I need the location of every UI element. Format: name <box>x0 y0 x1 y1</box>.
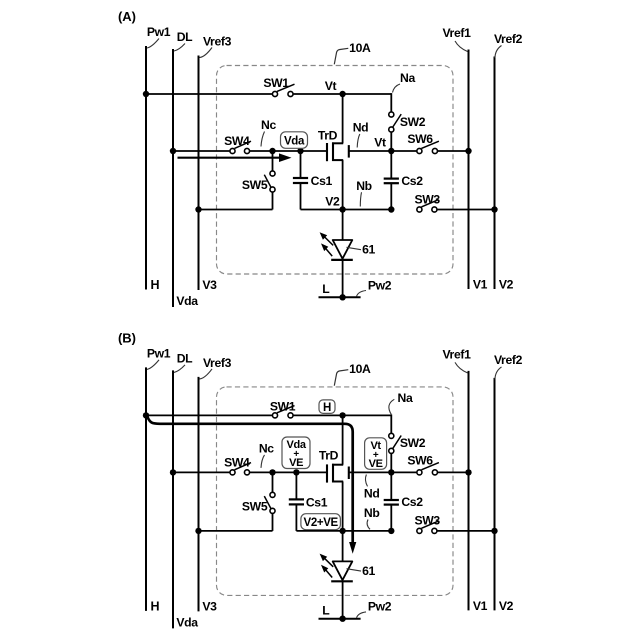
switch SW1 (B) <box>270 400 296 418</box>
junction Pw1-top wire (A) <box>143 91 149 97</box>
svg-text:SW3: SW3 <box>415 514 441 528</box>
node label Nc (B) <box>259 441 274 468</box>
node label V2+VE (boxed) <box>301 514 341 530</box>
svg-text:(A): (A) <box>118 9 136 24</box>
power line Pw1 (A) <box>146 25 171 292</box>
svg-text:10A: 10A <box>349 41 371 55</box>
junction node Vda/gate (B) <box>293 469 299 475</box>
svg-text:SW6: SW6 <box>407 453 433 467</box>
junction SW5 branch (B) <box>269 469 275 475</box>
svg-text:V1: V1 <box>473 599 488 613</box>
power node Pw2 (A) <box>319 278 392 300</box>
wire bottom row Cs1 to Nb (A) <box>301 209 392 211</box>
svg-text:SW5: SW5 <box>242 178 268 192</box>
switch SW6 (A) <box>407 132 439 154</box>
svg-text:Cs1: Cs1 <box>311 174 333 188</box>
node label Vt (right) <box>374 136 386 150</box>
LED 61 (A) <box>331 210 353 298</box>
svg-text:Cs1: Cs1 <box>306 495 328 509</box>
wire SW2 to node Nd (B) <box>390 453 392 472</box>
svg-text:61: 61 <box>362 243 375 257</box>
transistor TrD (A) <box>318 94 349 210</box>
junction node Nd (B) <box>388 469 394 475</box>
node label H (boxed) <box>319 400 335 414</box>
svg-text:Nc: Nc <box>259 441 274 455</box>
wire SW5 to Vref3 (A) <box>199 209 273 211</box>
wire node Nc row (B) <box>173 471 326 473</box>
svg-text:V3: V3 <box>202 599 217 613</box>
capacitor Cs2 (A) <box>384 151 424 210</box>
switch SW2 (B) <box>389 433 426 453</box>
svg-text:VE: VE <box>289 457 303 469</box>
node label Nd (B) <box>364 475 380 501</box>
wire SW2 to node Nd (A) <box>390 132 392 151</box>
switch SW1 (A) <box>263 76 294 97</box>
svg-text:Pw2: Pw2 <box>368 278 392 292</box>
svg-text:Nd: Nd <box>353 121 369 135</box>
node label Vt+VE (boxed) <box>365 438 387 470</box>
signal arrow (data write) <box>178 153 292 162</box>
transistor TrD (B) <box>319 415 349 531</box>
svg-text:V2+VE: V2+VE <box>304 517 339 529</box>
junction SW5 branch (A) <box>269 148 275 154</box>
node label Nd (A) <box>353 121 369 148</box>
junction SW3-Vref2 (B) <box>491 528 497 534</box>
current flow arrow (thick) <box>148 417 357 554</box>
switch SW3 (B) <box>415 514 441 534</box>
svg-text:Cs2: Cs2 <box>401 174 423 188</box>
wire SW3 to Vref2 (B) <box>437 530 495 532</box>
junction node Vda/gate (A) <box>297 148 303 154</box>
junction SW6-Vref1 (A) <box>465 148 471 154</box>
svg-text:SW5: SW5 <box>242 499 268 513</box>
node label Nc (A) <box>261 118 277 147</box>
reference line Vref2 (A) <box>494 32 523 292</box>
label 61 (B) <box>347 564 376 578</box>
svg-text:V2: V2 <box>499 278 514 292</box>
data line DL (B) <box>173 351 198 629</box>
wire node Nd row (A) <box>349 150 469 152</box>
data line DL (A) <box>173 30 198 308</box>
node label Nb (A) <box>356 179 372 207</box>
svg-text:H: H <box>323 402 331 414</box>
node label V2 (A) <box>325 194 340 208</box>
power node Pw2 (B) <box>319 600 392 622</box>
svg-text:SW2: SW2 <box>400 115 426 129</box>
svg-text:TrD: TrD <box>318 129 338 143</box>
pixel boundary 10A (A) <box>217 66 454 275</box>
wire bottom row Cs1 to Nb (B) <box>296 530 391 532</box>
svg-text:H: H <box>150 278 159 292</box>
junction Vref3-bottom wire (B) <box>195 528 201 534</box>
svg-text:SW1: SW1 <box>270 400 296 414</box>
wire SW5 to Vref3 (B) <box>199 530 273 532</box>
junction node Nb (A) <box>388 206 394 212</box>
svg-text:Pw1: Pw1 <box>147 25 171 39</box>
svg-text:SW4: SW4 <box>224 134 250 148</box>
wire node Nd row (B) <box>349 471 469 473</box>
node label Vt (top) <box>325 79 337 93</box>
svg-text:SW4: SW4 <box>224 456 250 470</box>
LED 61 (B) <box>331 531 353 619</box>
svg-text:Vt: Vt <box>325 79 337 93</box>
junction Vref3-bottom wire (A) <box>195 206 201 212</box>
switch SW6 (B) <box>407 453 439 475</box>
svg-text:H: H <box>150 599 159 613</box>
junction SW3-Vref2 (A) <box>491 206 497 212</box>
junction drain / top wire (B) <box>339 412 345 418</box>
svg-text:L: L <box>322 603 330 617</box>
svg-text:Nd: Nd <box>364 487 380 501</box>
reference line Vref2 (B) <box>494 353 523 613</box>
capacitor Cs1 (B) <box>289 472 328 531</box>
junction DL-Nc wire (A) <box>170 148 176 154</box>
wire node Nc row (A) <box>173 150 326 152</box>
svg-text:V3: V3 <box>202 278 217 292</box>
node label Vda+VE (boxed) <box>282 437 310 469</box>
capacitor Cs2 (B) <box>384 472 424 531</box>
junction DL-Nc wire (B) <box>170 469 176 475</box>
power line Pw1 (B) <box>146 346 171 613</box>
node label Nb (B) <box>364 506 380 529</box>
svg-text:L: L <box>322 282 330 296</box>
svg-text:Nb: Nb <box>364 506 380 520</box>
switch SW5 (B) <box>242 472 275 531</box>
svg-text:Vda: Vda <box>176 615 198 629</box>
svg-text:SW1: SW1 <box>263 76 289 90</box>
reference line Vref1 (A) <box>442 26 487 292</box>
label 61 (A) <box>347 243 376 257</box>
svg-text:SW3: SW3 <box>415 192 441 206</box>
switch SW4 (B) <box>224 456 251 475</box>
svg-text:10A: 10A <box>349 362 371 376</box>
switch SW3 (A) <box>415 192 441 212</box>
node Na corner wire (A) <box>391 71 415 115</box>
svg-text:DL: DL <box>177 30 193 44</box>
svg-text:SW2: SW2 <box>400 436 426 450</box>
svg-text:V2: V2 <box>325 194 340 208</box>
junction node V2 / LED anode (A) <box>339 206 345 212</box>
svg-text:Vt: Vt <box>374 136 386 150</box>
svg-text:Pw1: Pw1 <box>147 346 171 360</box>
svg-text:Na: Na <box>398 391 413 405</box>
svg-text:Cs2: Cs2 <box>401 495 423 509</box>
svg-text:Vref3: Vref3 <box>203 356 232 370</box>
wire top row Pw1 to Na corner (B) <box>146 414 391 416</box>
capacitor Cs1 (A) <box>293 151 333 210</box>
junction Pw1-top wire (B) <box>143 412 149 418</box>
svg-text:Vref2: Vref2 <box>494 353 523 367</box>
wire SW3 to Vref2 (A) <box>437 209 495 211</box>
node label Vda (boxed) <box>281 132 308 149</box>
LED light arrows (B) <box>320 554 334 578</box>
switch SW4 (A) <box>224 134 251 153</box>
label 10A (B) <box>334 362 371 386</box>
svg-text:Nc: Nc <box>261 118 276 132</box>
svg-text:TrD: TrD <box>319 449 339 463</box>
svg-text:Nb: Nb <box>356 179 372 193</box>
svg-text:V2: V2 <box>499 599 514 613</box>
junction SW6-Vref1 (B) <box>465 469 471 475</box>
label 10A (A) <box>334 41 371 65</box>
svg-text:Vref1: Vref1 <box>442 347 471 361</box>
svg-text:Vref1: Vref1 <box>442 26 471 40</box>
reference line Vref3 (A) <box>199 35 232 293</box>
reference line Vref1 (B) <box>442 347 487 613</box>
wire top row Pw1 to Na corner (A) <box>146 93 391 95</box>
svg-text:Vref2: Vref2 <box>494 32 523 46</box>
svg-text:Pw2: Pw2 <box>368 600 392 614</box>
reference line Vref3 (B) <box>199 356 232 614</box>
pixel boundary 10A (B) <box>217 387 454 596</box>
node Na corner wire (B) <box>389 391 413 436</box>
svg-text:Vda: Vda <box>284 136 305 148</box>
figure label (B) <box>118 330 136 345</box>
svg-text:61: 61 <box>362 564 375 578</box>
switch SW5 (A) <box>242 151 275 210</box>
junction node V2 / LED anode (B) <box>339 528 345 534</box>
svg-text:DL: DL <box>177 351 193 365</box>
svg-text:SW6: SW6 <box>407 132 433 146</box>
LED light arrows (A) <box>320 232 334 256</box>
svg-text:Vref3: Vref3 <box>203 35 232 49</box>
junction node Nd (A) <box>388 148 394 154</box>
switch SW2 (A) <box>389 112 426 132</box>
figure label (A) <box>118 9 136 24</box>
junction node Nb (B) <box>388 528 394 534</box>
svg-text:V1: V1 <box>473 278 488 292</box>
svg-text:VE: VE <box>369 458 383 470</box>
junction drain / top wire (A) <box>339 91 345 97</box>
svg-text:Na: Na <box>400 71 415 85</box>
svg-text:Vda: Vda <box>176 294 198 308</box>
svg-text:(B): (B) <box>118 330 136 345</box>
